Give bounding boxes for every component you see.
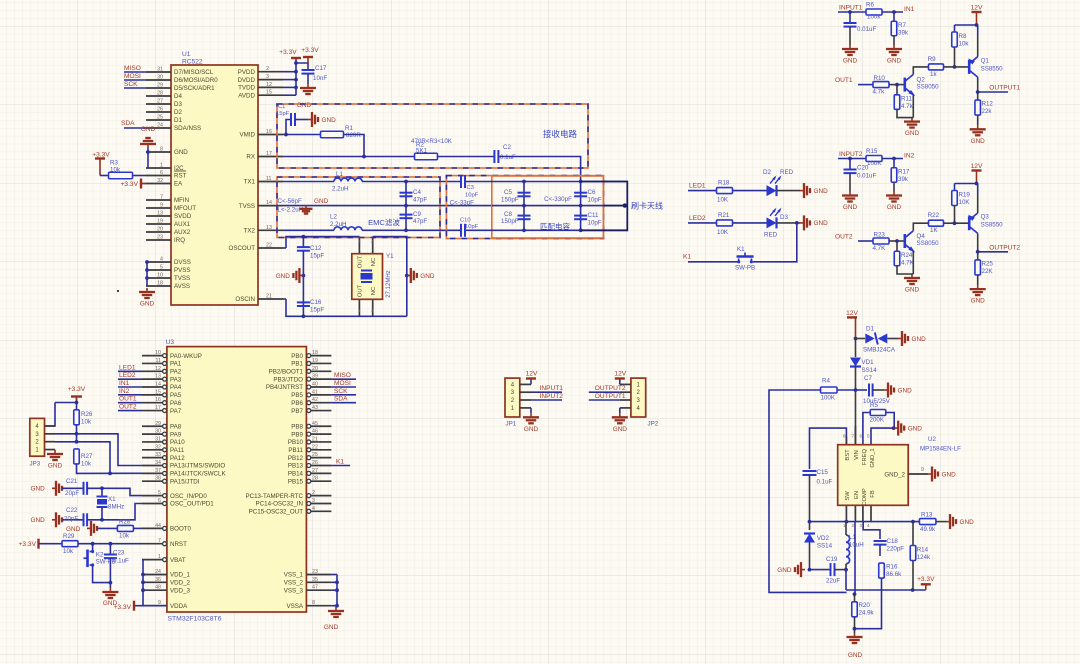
svg-text:刷卡天线: 刷卡天线 — [631, 201, 663, 211]
svg-text:PC15-OSC32_OUT: PC15-OSC32_OUT — [249, 509, 304, 516]
svg-text:GND_1: GND_1 — [870, 448, 876, 467]
svg-text:49.9k: 49.9k — [920, 526, 936, 533]
svg-text:D3: D3 — [780, 214, 788, 221]
svg-text:+3.3V: +3.3V — [917, 576, 935, 583]
svg-text:20pF: 20pF — [65, 490, 79, 497]
svg-text:PVSS: PVSS — [174, 267, 191, 274]
svg-text:32: 32 — [155, 444, 161, 450]
svg-text:C9: C9 — [413, 211, 421, 218]
svg-text:10nF: 10nF — [313, 75, 327, 82]
svg-text:4.7k: 4.7k — [873, 89, 886, 96]
svg-text:R21: R21 — [718, 212, 730, 219]
svg-text:BOOT0: BOOT0 — [170, 526, 192, 533]
svg-text:Q4: Q4 — [917, 233, 926, 240]
svg-text:SMBJ24CA: SMBJ24CA — [863, 347, 896, 354]
svg-text:2: 2 — [852, 523, 855, 528]
svg-text:86.6k: 86.6k — [886, 571, 902, 578]
svg-text:220pF: 220pF — [887, 546, 905, 553]
svg-text:R6: R6 — [866, 2, 874, 9]
svg-text:31: 31 — [157, 67, 163, 73]
svg-text:GND: GND — [174, 149, 188, 156]
svg-text:4: 4 — [867, 523, 870, 528]
svg-text:C12: C12 — [310, 245, 322, 252]
svg-text:K2: K2 — [96, 552, 104, 559]
svg-text:C19: C19 — [826, 556, 838, 563]
svg-text:10: 10 — [157, 273, 163, 279]
svg-text:12V: 12V — [614, 370, 626, 377]
svg-text:PA0-WKUP: PA0-WKUP — [170, 353, 202, 360]
svg-text:10: 10 — [155, 350, 161, 356]
svg-text:SCK: SCK — [124, 81, 138, 88]
svg-text:VDD_2: VDD_2 — [170, 580, 191, 587]
svg-text:150pF: 150pF — [501, 197, 519, 204]
svg-text:100k: 100k — [867, 14, 881, 21]
svg-text:GND: GND — [814, 220, 829, 227]
svg-text:VSS_1: VSS_1 — [284, 572, 304, 579]
svg-text:8: 8 — [843, 434, 846, 439]
svg-text:RED: RED — [780, 169, 794, 176]
svg-text:Q1: Q1 — [981, 57, 990, 64]
svg-text:13: 13 — [157, 211, 163, 217]
svg-text:K1: K1 — [737, 246, 745, 253]
svg-text:SS8050: SS8050 — [917, 84, 940, 91]
svg-text:31: 31 — [155, 436, 161, 442]
svg-text:GND: GND — [314, 198, 329, 205]
svg-text:VIN: VIN — [854, 450, 860, 460]
svg-text:6: 6 — [158, 498, 161, 504]
svg-text:23: 23 — [312, 569, 318, 575]
svg-text:LED2: LED2 — [119, 372, 136, 379]
svg-text:3: 3 — [312, 498, 315, 504]
svg-text:15pF: 15pF — [276, 111, 290, 117]
svg-text:10K: 10K — [717, 197, 729, 204]
svg-text:2: 2 — [358, 239, 361, 244]
svg-text:PA8: PA8 — [170, 423, 182, 430]
svg-text:GND: GND — [777, 567, 792, 574]
svg-text:接收电路: 接收电路 — [543, 129, 578, 139]
svg-text:D3: D3 — [174, 101, 182, 108]
svg-text:D2: D2 — [174, 109, 182, 116]
svg-text:SDA: SDA — [334, 396, 348, 403]
svg-text:+3.3V: +3.3V — [19, 541, 37, 548]
svg-text:IN1: IN1 — [904, 6, 915, 13]
svg-text:6: 6 — [160, 170, 163, 176]
svg-text:100K: 100K — [867, 160, 882, 167]
svg-text:RC522: RC522 — [182, 59, 203, 66]
svg-text:37: 37 — [155, 468, 161, 474]
svg-text:12V: 12V — [971, 163, 983, 170]
svg-text:IN2: IN2 — [904, 153, 915, 160]
svg-text:GND: GND — [613, 426, 628, 433]
svg-text:R13: R13 — [921, 512, 933, 519]
svg-text:PB5: PB5 — [291, 392, 303, 399]
svg-text:6: 6 — [860, 434, 863, 439]
svg-text:IRQ: IRQ — [174, 237, 185, 244]
svg-text:C11: C11 — [588, 212, 599, 219]
svg-text:0.01uF: 0.01uF — [857, 173, 876, 180]
svg-text:R24: R24 — [901, 252, 913, 259]
svg-text:GND: GND — [848, 652, 863, 659]
svg-text:10k: 10k — [81, 419, 92, 426]
svg-text:29: 29 — [157, 83, 163, 89]
svg-text:RX: RX — [246, 154, 255, 161]
svg-text:TVSS: TVSS — [239, 203, 255, 210]
svg-text:GND: GND — [140, 301, 155, 308]
svg-text:1K: 1K — [930, 227, 938, 234]
svg-text:OUT1: OUT1 — [119, 396, 137, 403]
svg-text:GND: GND — [905, 130, 920, 137]
svg-text:GND: GND — [912, 336, 927, 343]
svg-text:OSC_IN/PD0: OSC_IN/PD0 — [170, 493, 207, 500]
svg-text:8MHz: 8MHz — [108, 504, 124, 511]
svg-text:SW-PB: SW-PB — [735, 265, 755, 272]
svg-text:R18: R18 — [718, 180, 730, 187]
svg-text:PC13-TAMPER-RTC: PC13-TAMPER-RTC — [245, 493, 303, 500]
svg-text:TVSS: TVSS — [174, 275, 190, 282]
svg-text:28: 28 — [157, 91, 163, 97]
svg-text:PB9: PB9 — [291, 431, 303, 438]
svg-text:OUT: OUT — [358, 284, 364, 297]
svg-text:D1: D1 — [866, 326, 874, 333]
svg-text:22k: 22k — [982, 108, 993, 115]
svg-text:12: 12 — [155, 366, 161, 372]
svg-text:PB12: PB12 — [288, 455, 304, 462]
svg-text:INPUT2: INPUT2 — [540, 393, 564, 400]
svg-text:R9: R9 — [928, 56, 936, 63]
svg-text:38: 38 — [155, 476, 161, 482]
svg-text:D5/SCK/ADR1: D5/SCK/ADR1 — [174, 85, 215, 92]
svg-text:SDA: SDA — [121, 120, 135, 127]
svg-text:R3: R3 — [110, 160, 118, 167]
svg-text:MOSI: MOSI — [124, 73, 141, 80]
svg-text:GND: GND — [103, 600, 118, 607]
svg-text:5: 5 — [160, 265, 163, 271]
svg-text:OUT: OUT — [358, 255, 364, 268]
svg-text:D1: D1 — [174, 117, 182, 124]
svg-text:27.12MHz: 27.12MHz — [386, 270, 392, 297]
svg-text:21: 21 — [266, 294, 272, 300]
svg-text:GND: GND — [276, 273, 291, 280]
svg-text:C17: C17 — [315, 65, 327, 72]
svg-text:GND: GND — [48, 463, 63, 470]
svg-text:+3.3V: +3.3V — [68, 386, 86, 393]
svg-text:4: 4 — [160, 257, 163, 263]
svg-text:C<-33pF: C<-33pF — [450, 200, 474, 207]
svg-text:9: 9 — [160, 203, 163, 209]
svg-text:15pF: 15pF — [310, 253, 324, 260]
svg-text:C<-56pF: C<-56pF — [278, 198, 302, 205]
svg-text:4: 4 — [312, 506, 315, 512]
svg-text:7: 7 — [852, 434, 855, 439]
svg-text:SW: SW — [845, 491, 851, 501]
svg-text:OUTPUT1: OUTPUT1 — [989, 85, 1020, 92]
svg-text:D4: D4 — [174, 93, 182, 100]
svg-text:R19: R19 — [959, 192, 971, 199]
svg-text:44: 44 — [155, 523, 161, 529]
svg-text:150pF: 150pF — [501, 218, 519, 225]
svg-text:4: 4 — [371, 239, 374, 244]
svg-text:SVDD: SVDD — [174, 213, 192, 220]
svg-text:11: 11 — [156, 358, 162, 364]
svg-text:17: 17 — [155, 405, 161, 411]
svg-text:GND: GND — [31, 517, 46, 524]
svg-text:K1: K1 — [336, 459, 344, 466]
svg-text:PB11: PB11 — [288, 447, 303, 454]
svg-text:GND_2: GND_2 — [884, 472, 905, 479]
svg-text:PA5: PA5 — [170, 392, 182, 399]
svg-text:R25: R25 — [982, 260, 994, 267]
svg-text:PB2/BOOT1: PB2/BOOT1 — [269, 369, 304, 376]
svg-text:R14: R14 — [917, 547, 929, 554]
svg-text:25: 25 — [312, 452, 318, 458]
svg-text:R29: R29 — [63, 533, 75, 540]
svg-text:R8: R8 — [959, 33, 967, 40]
svg-text:VD1: VD1 — [862, 359, 875, 366]
svg-text:PC14-OSC32_IN: PC14-OSC32_IN — [256, 501, 303, 508]
svg-text:25: 25 — [157, 115, 163, 121]
svg-text:1: 1 — [160, 163, 163, 169]
svg-text:R7: R7 — [898, 22, 906, 29]
svg-text:SS8050: SS8050 — [917, 240, 940, 247]
svg-text:PVDD: PVDD — [238, 69, 256, 76]
svg-text:MFIN: MFIN — [174, 197, 189, 204]
svg-text:R4: R4 — [822, 378, 830, 385]
svg-text:41: 41 — [312, 389, 318, 395]
svg-text:AVSS: AVSS — [174, 283, 190, 290]
svg-text:RED: RED — [764, 232, 778, 239]
svg-text:19: 19 — [157, 219, 163, 225]
svg-text:40: 40 — [312, 382, 318, 388]
svg-text:K1: K1 — [683, 254, 691, 261]
svg-text:OUTPUT2: OUTPUT2 — [989, 244, 1020, 251]
svg-text:PB15: PB15 — [288, 478, 304, 485]
svg-text:C23: C23 — [113, 550, 125, 557]
svg-text:GND: GND — [905, 287, 920, 294]
svg-text:PA12: PA12 — [170, 455, 185, 462]
svg-text:20: 20 — [312, 366, 318, 372]
svg-text:PA14/JTCK/SWCLK: PA14/JTCK/SWCLK — [170, 471, 226, 478]
svg-text:SS14: SS14 — [817, 543, 833, 550]
svg-text:TX1: TX1 — [244, 179, 256, 186]
svg-text:LED2: LED2 — [689, 215, 706, 222]
svg-text:TVDD: TVDD — [238, 85, 255, 92]
svg-text:19: 19 — [312, 358, 318, 364]
svg-text:OSC_OUT/PD1: OSC_OUT/PD1 — [170, 501, 214, 508]
svg-text:3: 3 — [371, 308, 374, 313]
svg-text:5: 5 — [867, 434, 870, 439]
svg-text:100K: 100K — [821, 395, 836, 402]
svg-text:32: 32 — [157, 178, 163, 184]
svg-text:PA11: PA11 — [170, 447, 185, 454]
svg-text:C20: C20 — [857, 165, 869, 172]
svg-text:Y1: Y1 — [386, 253, 394, 260]
svg-text:16: 16 — [266, 129, 272, 135]
svg-text:GND: GND — [420, 273, 435, 280]
svg-text:10pF: 10pF — [465, 193, 479, 199]
svg-text:29: 29 — [155, 421, 161, 427]
svg-text:STM32F103C8T6: STM32F103C8T6 — [168, 616, 222, 623]
svg-text:LED1: LED1 — [689, 183, 706, 190]
svg-text:10K: 10K — [959, 199, 971, 206]
svg-text:IN2: IN2 — [119, 388, 130, 395]
svg-text:JP1: JP1 — [506, 421, 517, 428]
svg-text:46: 46 — [312, 429, 318, 435]
svg-text:1: 1 — [358, 308, 361, 313]
svg-text:U1: U1 — [182, 51, 191, 58]
svg-text:C18: C18 — [887, 538, 899, 545]
svg-text:28: 28 — [312, 476, 318, 482]
svg-text:45: 45 — [312, 421, 318, 427]
svg-text:23: 23 — [157, 235, 163, 241]
svg-text:0.01uF: 0.01uF — [857, 26, 876, 33]
svg-text:200K: 200K — [870, 417, 885, 424]
svg-text:1: 1 — [158, 554, 161, 560]
svg-text:MISO: MISO — [124, 65, 141, 72]
svg-text:OUT1: OUT1 — [835, 77, 853, 84]
svg-text:22: 22 — [266, 243, 272, 249]
svg-text:VMID: VMID — [240, 132, 256, 139]
svg-text:16: 16 — [155, 397, 161, 403]
svg-text:OUTPUT2: OUTPUT2 — [595, 385, 626, 392]
svg-text:9: 9 — [921, 467, 924, 473]
svg-text:VDD_1: VDD_1 — [170, 572, 191, 579]
svg-text:GND: GND — [843, 204, 858, 211]
svg-text:FB: FB — [870, 490, 876, 498]
svg-text:VSS_3: VSS_3 — [284, 587, 304, 594]
svg-text:8: 8 — [160, 147, 163, 153]
svg-text:MOSI: MOSI — [334, 380, 351, 387]
svg-text:+3.3V: +3.3V — [121, 181, 139, 188]
svg-text:GND: GND — [887, 58, 902, 65]
svg-text:4.7k: 4.7k — [901, 103, 914, 110]
svg-text:10k: 10k — [959, 41, 970, 48]
svg-text:GND: GND — [960, 519, 975, 526]
svg-text:VD2: VD2 — [817, 535, 830, 542]
svg-text:22: 22 — [312, 444, 318, 450]
svg-text:+3.3V: +3.3V — [279, 49, 297, 56]
svg-text:26: 26 — [157, 107, 163, 113]
svg-text:PA9: PA9 — [170, 431, 182, 438]
svg-text:5: 5 — [158, 490, 161, 496]
svg-text:GND: GND — [297, 102, 312, 109]
svg-text:R17: R17 — [898, 169, 910, 176]
svg-text:22K: 22K — [982, 268, 994, 275]
svg-text:SCK: SCK — [334, 388, 348, 395]
svg-text:JP2: JP2 — [648, 421, 659, 428]
svg-text:22uF: 22uF — [826, 578, 840, 585]
svg-text:PB6: PB6 — [291, 400, 303, 407]
svg-text:C1: C1 — [278, 104, 285, 110]
svg-text:C16: C16 — [310, 299, 322, 306]
svg-text:7: 7 — [160, 195, 163, 201]
svg-text:10k: 10k — [63, 548, 74, 555]
svg-text:VBAT: VBAT — [170, 557, 186, 564]
svg-text:C8: C8 — [504, 211, 512, 218]
svg-text:PB13: PB13 — [288, 463, 304, 470]
svg-text:1k: 1k — [930, 71, 937, 78]
svg-text:AUX2: AUX2 — [174, 229, 191, 236]
svg-text:C22: C22 — [66, 507, 78, 514]
svg-text:13: 13 — [155, 374, 161, 380]
svg-text:8: 8 — [312, 600, 315, 606]
svg-text:43: 43 — [312, 405, 318, 411]
svg-text:L<-2.2uH: L<-2.2uH — [278, 207, 304, 214]
svg-text:10pF: 10pF — [588, 220, 602, 227]
svg-text:2.2uH: 2.2uH — [332, 186, 349, 193]
svg-text:30: 30 — [157, 75, 163, 81]
svg-text:3: 3 — [266, 74, 269, 80]
svg-text:C21: C21 — [66, 478, 78, 485]
svg-text:PA6: PA6 — [170, 400, 182, 407]
svg-text:24.9k: 24.9k — [859, 610, 875, 617]
svg-text:AUX1: AUX1 — [174, 221, 191, 228]
svg-text:47pF: 47pF — [413, 197, 427, 204]
svg-text:NC: NC — [371, 287, 377, 295]
svg-text:GND: GND — [66, 526, 81, 533]
svg-text:0.1uF: 0.1uF — [500, 154, 516, 161]
svg-text:12V: 12V — [526, 370, 538, 377]
svg-text:0.1uF: 0.1uF — [113, 558, 129, 565]
svg-text:R10: R10 — [874, 75, 886, 82]
svg-text:D2: D2 — [763, 169, 771, 176]
svg-text:R16: R16 — [886, 564, 898, 571]
svg-text:C15: C15 — [817, 469, 829, 476]
svg-text:17: 17 — [266, 151, 272, 157]
svg-text:3: 3 — [860, 523, 863, 528]
svg-text:MP1584EN-LF: MP1584EN-LF — [920, 446, 961, 453]
svg-text:PA4: PA4 — [170, 384, 182, 391]
svg-text:GND: GND — [887, 204, 902, 211]
svg-text:Q2: Q2 — [917, 77, 926, 84]
svg-text:R23: R23 — [874, 232, 886, 239]
svg-text:10k: 10k — [81, 461, 92, 468]
svg-text:OUT2: OUT2 — [119, 404, 137, 411]
svg-text:12: 12 — [266, 82, 272, 88]
svg-text:VSS_2: VSS_2 — [284, 580, 304, 587]
svg-text:AVDD: AVDD — [238, 92, 255, 99]
svg-text:GND: GND — [942, 471, 957, 478]
svg-text:11: 11 — [266, 176, 272, 182]
svg-text:R20: R20 — [859, 602, 871, 609]
svg-text:BST: BST — [845, 449, 851, 461]
svg-text:24: 24 — [155, 569, 161, 575]
svg-text:GND: GND — [908, 425, 923, 432]
svg-text:R26: R26 — [81, 411, 93, 418]
svg-text:48: 48 — [155, 585, 161, 591]
svg-text:4.7K: 4.7K — [901, 260, 915, 267]
svg-text:INPUT1: INPUT1 — [540, 385, 564, 392]
svg-text:+3.3V: +3.3V — [301, 47, 319, 54]
svg-text:NRST: NRST — [170, 541, 187, 548]
svg-text:10K: 10K — [717, 229, 729, 236]
svg-text:820R: 820R — [346, 132, 361, 139]
svg-text:SS8550: SS8550 — [981, 222, 1004, 229]
svg-text:SDA/NSS: SDA/NSS — [174, 125, 201, 132]
svg-text:D7/MISO/SCL: D7/MISO/SCL — [174, 69, 214, 76]
svg-text:VSSA: VSSA — [286, 603, 303, 610]
svg-text:PB1: PB1 — [291, 361, 303, 368]
svg-text:2: 2 — [266, 66, 269, 72]
svg-text:GND: GND — [843, 58, 858, 65]
svg-text:PA10: PA10 — [170, 439, 185, 446]
svg-text:D6/MOSI/ADR0: D6/MOSI/ADR0 — [174, 77, 218, 84]
svg-text:47pF: 47pF — [413, 218, 427, 225]
svg-text:124k: 124k — [917, 554, 931, 561]
svg-text:14: 14 — [266, 200, 272, 206]
svg-text:OSCOUT: OSCOUT — [229, 245, 256, 252]
svg-text:47: 47 — [312, 585, 318, 591]
svg-text:35: 35 — [312, 577, 318, 583]
